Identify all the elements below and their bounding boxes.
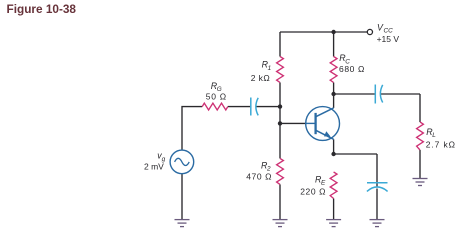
- svg-text:Figure 10-38: Figure 10-38: [7, 2, 77, 16]
- svg-text:+15 V: +15 V: [377, 34, 400, 44]
- svg-text:220 Ω: 220 Ω: [300, 186, 326, 196]
- svg-text:1: 1: [268, 65, 272, 72]
- svg-text:2.7 kΩ: 2.7 kΩ: [426, 139, 456, 149]
- svg-text:680 Ω: 680 Ω: [339, 64, 365, 74]
- svg-text:L: L: [432, 132, 436, 139]
- svg-text:2 kΩ: 2 kΩ: [251, 73, 270, 83]
- svg-text:2 mV: 2 mV: [144, 162, 164, 172]
- svg-text:470 Ω: 470 Ω: [246, 172, 272, 182]
- svg-text:50 Ω: 50 Ω: [206, 91, 227, 101]
